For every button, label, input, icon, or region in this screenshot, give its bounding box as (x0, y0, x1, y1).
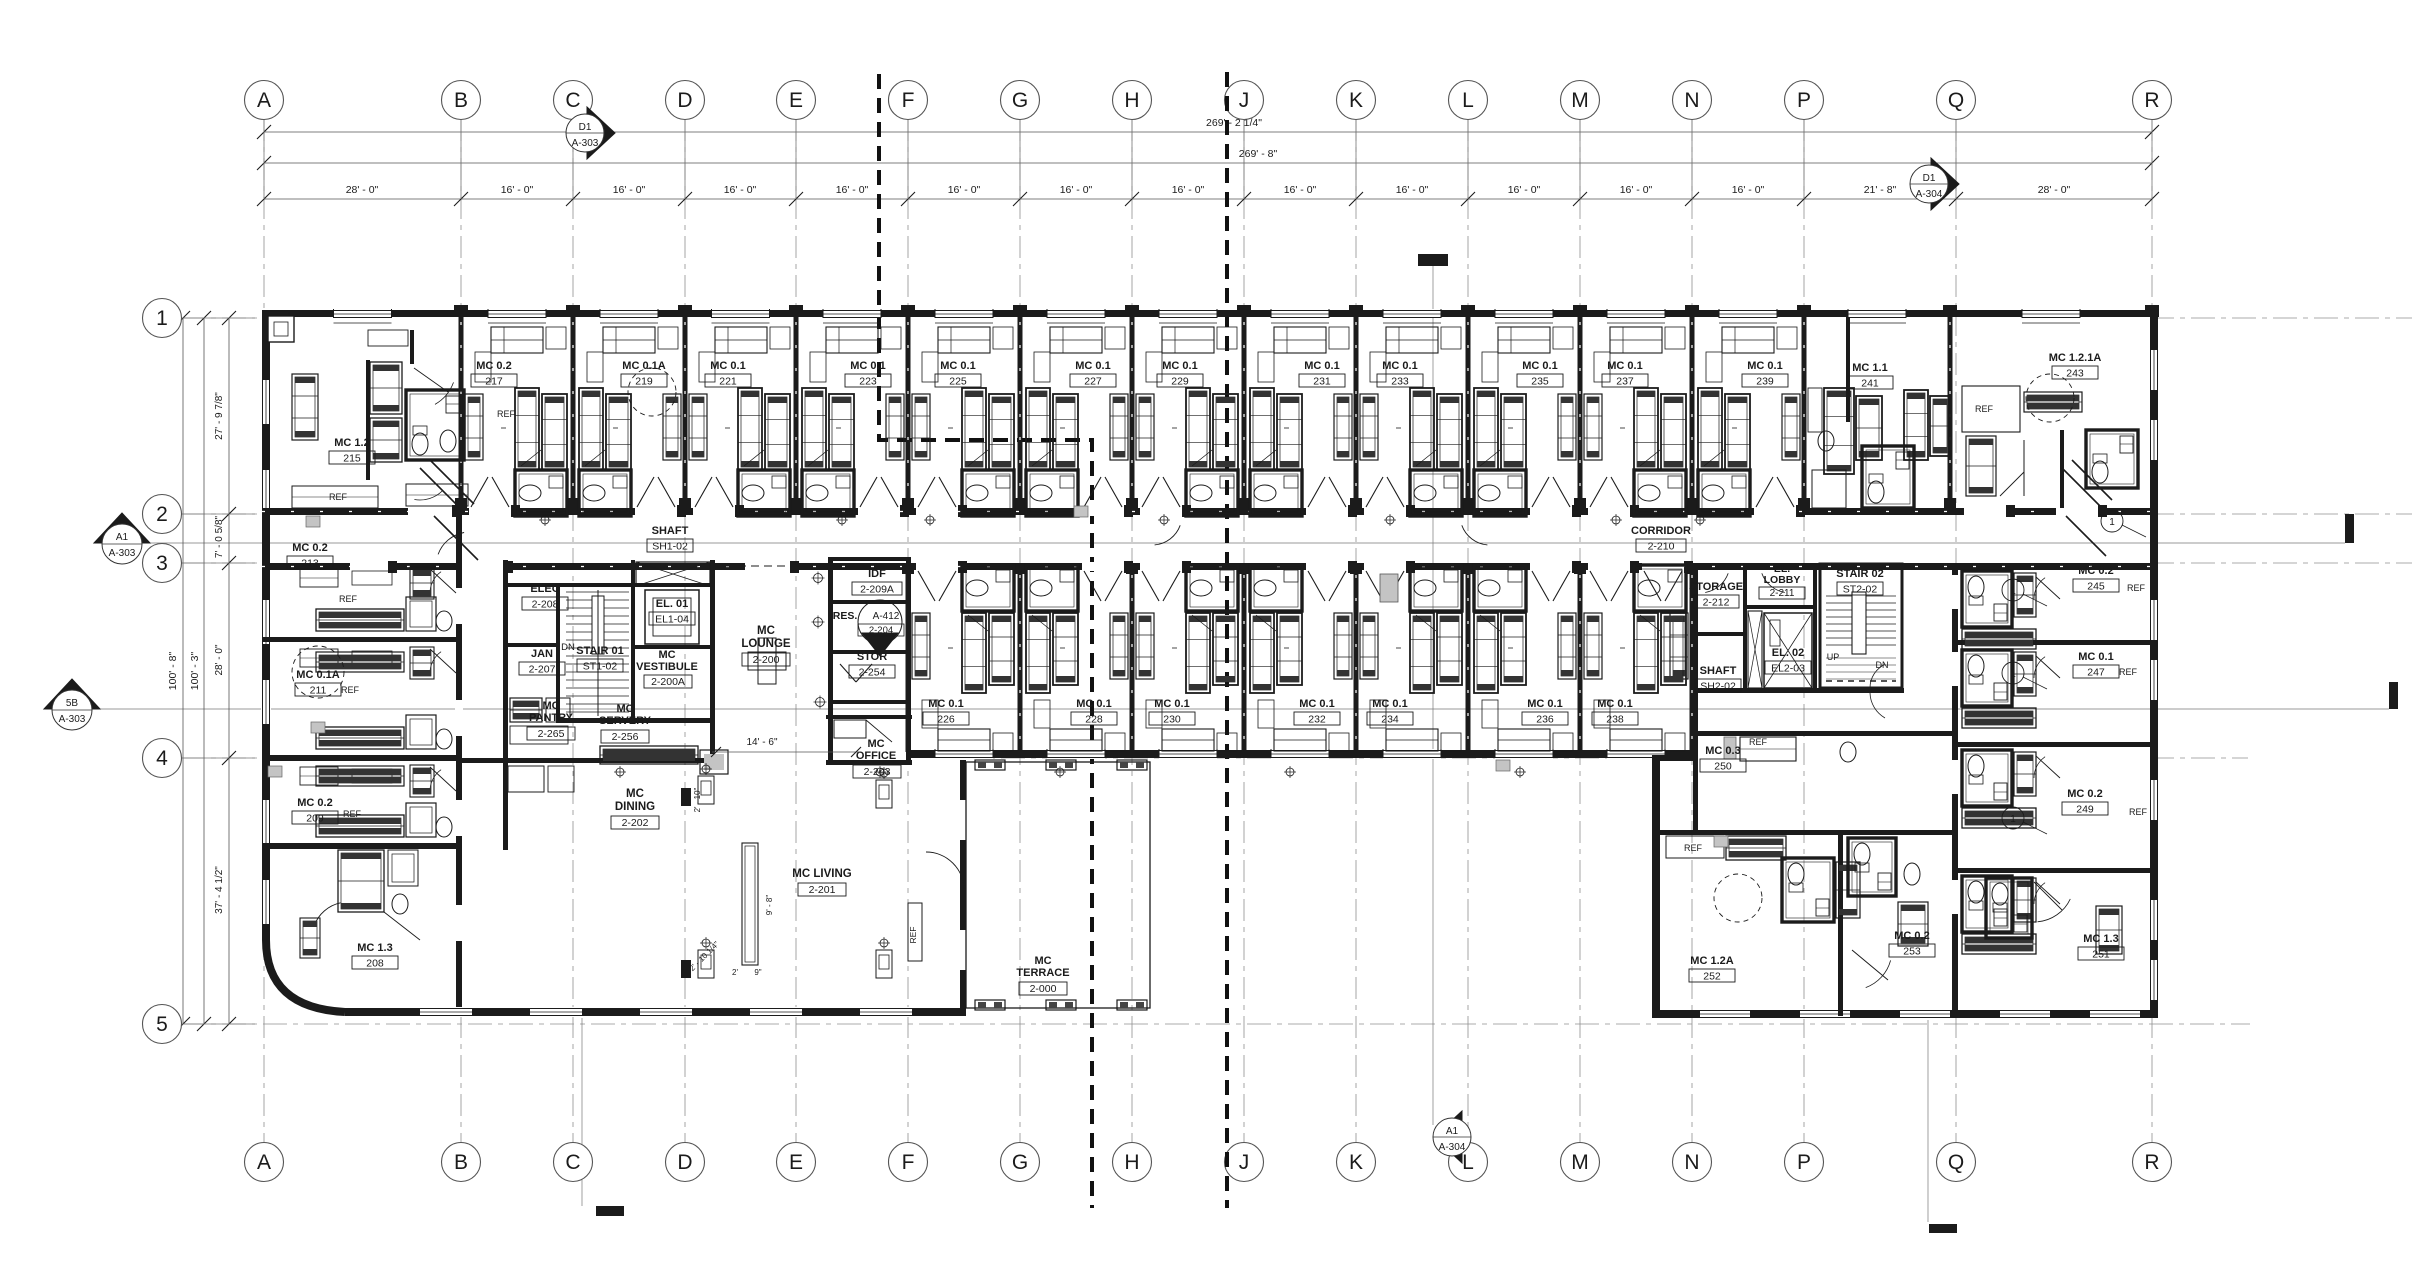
svg-text:E: E (789, 89, 803, 112)
svg-text:2-209A: 2-209A (860, 584, 894, 596)
svg-text:2-203: 2-203 (864, 766, 891, 778)
svg-text:16' - 0": 16' - 0" (724, 184, 757, 196)
svg-text:2-254: 2-254 (859, 667, 886, 679)
svg-text:K: K (1349, 1151, 1363, 1174)
svg-text:REF: REF (908, 927, 918, 944)
svg-text:239: 239 (1756, 376, 1774, 388)
svg-text:EL. 01: EL. 01 (656, 598, 688, 610)
svg-text:RES.: RES. (833, 610, 858, 622)
svg-text:PANTRY: PANTRY (529, 712, 574, 724)
svg-text:A-304: A-304 (1439, 1142, 1466, 1153)
svg-text:EL2-03: EL2-03 (1771, 663, 1805, 675)
svg-text:2-200A: 2-200A (651, 676, 685, 688)
svg-text:IDF: IDF (868, 568, 886, 580)
svg-text:243: 243 (2066, 368, 2084, 380)
svg-text:J: J (1239, 89, 1250, 112)
svg-text:MC: MC (867, 738, 884, 750)
svg-text:D1: D1 (1923, 173, 1936, 184)
svg-text:2-000: 2-000 (1030, 983, 1057, 995)
svg-text:SHAFT: SHAFT (652, 525, 689, 537)
svg-text:TERRACE: TERRACE (1016, 967, 1069, 979)
svg-text:MC 1.2: MC 1.2 (334, 437, 369, 449)
svg-text:D: D (677, 1151, 692, 1174)
svg-text:DN: DN (1876, 660, 1889, 670)
svg-text:MC 0.2: MC 0.2 (1894, 930, 1929, 942)
svg-text:MC 1.2A: MC 1.2A (1690, 955, 1733, 967)
svg-text:LOUNGE: LOUNGE (741, 638, 791, 650)
svg-text:MC 0.1: MC 0.1 (928, 698, 963, 710)
svg-text:MC 0.1: MC 0.1 (1372, 698, 1407, 710)
svg-text:249: 249 (2076, 804, 2094, 816)
svg-text:OFFICE: OFFICE (856, 750, 896, 762)
svg-text:234: 234 (1381, 714, 1399, 726)
svg-text:N: N (1684, 89, 1699, 112)
svg-text:250: 250 (1714, 761, 1732, 773)
svg-text:2-211: 2-211 (1770, 588, 1795, 599)
svg-text:1: 1 (2010, 814, 2016, 825)
svg-text:MC: MC (626, 788, 644, 800)
svg-text:STORAGE: STORAGE (1689, 581, 1743, 593)
svg-text:STAIR 02: STAIR 02 (1836, 568, 1883, 580)
svg-text:217: 217 (485, 376, 503, 388)
svg-text:DINING: DINING (615, 801, 655, 813)
svg-text:STOR: STOR (857, 651, 887, 663)
svg-text:STAIR 01: STAIR 01 (576, 645, 623, 657)
svg-text:227: 227 (1084, 376, 1102, 388)
svg-text:MC 0.2: MC 0.2 (476, 360, 511, 372)
svg-text:2-207: 2-207 (529, 664, 556, 676)
svg-text:2-265: 2-265 (538, 728, 565, 740)
svg-text:2-212: 2-212 (1703, 597, 1730, 609)
svg-text:DN: DN (561, 642, 575, 653)
svg-text:16' - 0": 16' - 0" (1508, 184, 1541, 196)
svg-text:MC 0.1: MC 0.1 (1522, 360, 1557, 372)
svg-text:215: 215 (343, 453, 361, 465)
svg-text:2': 2' (732, 968, 738, 977)
svg-text:MC 0.1: MC 0.1 (1382, 360, 1417, 372)
svg-text:MC 0.1A: MC 0.1A (622, 360, 665, 372)
svg-text:REF: REF (2129, 807, 2148, 817)
svg-text:238: 238 (1606, 714, 1624, 726)
svg-text:B: B (454, 1151, 468, 1174)
svg-text:D1: D1 (579, 122, 592, 133)
svg-text:E: E (789, 1151, 803, 1174)
svg-text:MC 1.3: MC 1.3 (357, 942, 392, 954)
svg-text:A-303: A-303 (59, 714, 86, 725)
svg-text:247: 247 (2087, 667, 2105, 679)
svg-text:14' - 6": 14' - 6" (746, 737, 777, 748)
svg-text:1: 1 (2010, 669, 2016, 680)
svg-text:R: R (2144, 1151, 2159, 1174)
svg-text:MC: MC (1034, 955, 1051, 967)
svg-text:221: 221 (719, 376, 737, 388)
svg-text:H: H (1124, 1151, 1139, 1174)
svg-text:223: 223 (859, 376, 877, 388)
svg-text:REF: REF (341, 685, 360, 695)
svg-text:4: 4 (156, 747, 168, 770)
svg-text:MC 0.1A: MC 0.1A (296, 669, 339, 681)
svg-text:2-201: 2-201 (809, 884, 836, 896)
svg-text:252: 252 (1703, 971, 1721, 983)
svg-text:Q: Q (1948, 89, 1964, 112)
svg-text:269' - 2 1/4": 269' - 2 1/4" (1206, 117, 1262, 129)
svg-text:MC 0.1: MC 0.1 (1597, 698, 1632, 710)
svg-text:F: F (902, 1151, 915, 1174)
svg-text:5B: 5B (66, 698, 79, 709)
svg-text:269' - 8": 269' - 8" (1239, 148, 1278, 160)
svg-text:16' - 0": 16' - 0" (1060, 184, 1093, 196)
svg-text:SERVERY: SERVERY (599, 715, 652, 727)
svg-text:MC 0.1: MC 0.1 (1607, 360, 1642, 372)
svg-text:MC 0.1: MC 0.1 (1527, 698, 1562, 710)
svg-text:MC: MC (757, 625, 775, 637)
svg-text:211: 211 (310, 685, 327, 697)
svg-text:231: 231 (1313, 376, 1331, 388)
svg-text:28' - 0": 28' - 0" (214, 644, 225, 675)
svg-text:REF: REF (1975, 404, 1994, 414)
svg-text:MC: MC (616, 703, 633, 715)
svg-text:2-208: 2-208 (532, 599, 559, 611)
svg-text:251: 251 (2092, 949, 2110, 961)
svg-text:16' - 0": 16' - 0" (1620, 184, 1653, 196)
svg-text:M: M (1571, 1151, 1589, 1174)
svg-text:16' - 0": 16' - 0" (501, 184, 534, 196)
svg-text:253: 253 (1903, 946, 1921, 958)
svg-text:21' - 8": 21' - 8" (1864, 184, 1897, 196)
svg-text:37' - 4 1/2": 37' - 4 1/2" (214, 866, 225, 914)
svg-text:2-256: 2-256 (612, 731, 639, 743)
svg-text:MC 0.1: MC 0.1 (1304, 360, 1339, 372)
svg-text:A1: A1 (116, 532, 129, 543)
svg-text:28' - 0": 28' - 0" (346, 184, 379, 196)
svg-text:3: 3 (156, 552, 168, 575)
svg-text:REF: REF (1749, 737, 1768, 747)
svg-text:A-304: A-304 (1916, 189, 1943, 200)
svg-text:P: P (1797, 89, 1811, 112)
svg-text:A-412: A-412 (873, 611, 900, 622)
svg-text:5: 5 (156, 1013, 168, 1036)
svg-text:100' - 3": 100' - 3" (189, 652, 201, 691)
svg-text:229: 229 (1171, 376, 1189, 388)
svg-text:REF: REF (2127, 583, 2146, 593)
svg-text:16' - 0": 16' - 0" (613, 184, 646, 196)
svg-text:16' - 0": 16' - 0" (948, 184, 981, 196)
svg-text:MC 0.1: MC 0.1 (1076, 698, 1111, 710)
svg-text:MC 0.1: MC 0.1 (1299, 698, 1334, 710)
svg-text:16' - 0": 16' - 0" (1732, 184, 1765, 196)
svg-text:9' - 8": 9' - 8" (765, 895, 774, 916)
svg-text:2-200: 2-200 (753, 654, 780, 666)
svg-text:MC 1.1: MC 1.1 (1852, 362, 1887, 374)
svg-text:B: B (454, 89, 468, 112)
svg-text:MC 0.1: MC 0.1 (1747, 360, 1782, 372)
svg-text:A-303: A-303 (109, 548, 136, 559)
svg-text:REF: REF (1684, 843, 1703, 853)
svg-text:MC: MC (658, 649, 675, 661)
svg-text:CORRIDOR: CORRIDOR (1631, 525, 1691, 537)
svg-text:2-202: 2-202 (622, 817, 649, 829)
svg-text:27' - 9 7/8": 27' - 9 7/8" (214, 392, 225, 440)
svg-text:C: C (565, 1151, 580, 1174)
svg-text:LOBBY: LOBBY (1764, 574, 1801, 586)
svg-text:MC 1.3: MC 1.3 (2083, 933, 2118, 945)
svg-text:100' - 8": 100' - 8" (167, 652, 179, 691)
svg-text:N: N (1684, 1151, 1699, 1174)
svg-text:D: D (677, 89, 692, 112)
svg-text:REF: REF (329, 492, 348, 502)
svg-text:C: C (565, 89, 580, 112)
svg-text:G: G (1012, 89, 1028, 112)
svg-text:245: 245 (2087, 581, 2105, 593)
svg-text:P: P (1797, 1151, 1811, 1174)
svg-text:JAN: JAN (531, 648, 553, 660)
svg-text:MC 0.1: MC 0.1 (1075, 360, 1110, 372)
svg-text:ST2-02: ST2-02 (1843, 584, 1878, 596)
svg-text:R: R (2144, 89, 2159, 112)
svg-text:1: 1 (2010, 586, 2016, 597)
svg-text:219: 219 (635, 376, 653, 388)
svg-text:209: 209 (306, 813, 324, 825)
svg-text:Q: Q (1948, 1151, 1964, 1174)
svg-text:MC 0.2: MC 0.2 (2067, 788, 2102, 800)
svg-text:MC 0.2: MC 0.2 (297, 797, 332, 809)
svg-text:SH1-02: SH1-02 (652, 541, 688, 553)
svg-text:UP: UP (1827, 652, 1840, 662)
svg-text:MC 1.2.1A: MC 1.2.1A (2049, 352, 2102, 364)
svg-text:MC: MC (542, 700, 559, 712)
svg-text:MC 0.2: MC 0.2 (292, 542, 327, 554)
svg-text:213: 213 (301, 558, 319, 570)
svg-text:MC 0.1: MC 0.1 (1162, 360, 1197, 372)
svg-text:MC 0.1: MC 0.1 (1154, 698, 1189, 710)
svg-text:J: J (1239, 1151, 1250, 1174)
svg-text:1: 1 (2109, 517, 2115, 528)
svg-text:M: M (1571, 89, 1589, 112)
svg-text:MC LIVING: MC LIVING (792, 868, 851, 880)
svg-text:225: 225 (949, 376, 967, 388)
svg-text:235: 235 (1531, 376, 1549, 388)
svg-text:MC 0.1: MC 0.1 (710, 360, 745, 372)
svg-text:16' - 0": 16' - 0" (836, 184, 869, 196)
svg-text:16' - 0": 16' - 0" (1396, 184, 1429, 196)
svg-text:A: A (257, 89, 271, 112)
svg-text:MC 0.1: MC 0.1 (2078, 651, 2113, 663)
svg-text:L: L (1462, 89, 1474, 112)
svg-text:241: 241 (1861, 378, 1879, 390)
svg-text:2-204: 2-204 (869, 625, 893, 636)
svg-text:28' - 0": 28' - 0" (2038, 184, 2071, 196)
svg-text:L: L (1462, 1151, 1474, 1174)
svg-text:228: 228 (1085, 714, 1103, 726)
svg-text:SHAFT: SHAFT (1700, 665, 1737, 677)
svg-text:REF: REF (2119, 667, 2138, 677)
svg-text:A1: A1 (1446, 1126, 1459, 1137)
svg-text:VESTIBULE: VESTIBULE (636, 661, 698, 673)
svg-text:236: 236 (1536, 714, 1554, 726)
svg-text:232: 232 (1308, 714, 1326, 726)
svg-text:16' - 0": 16' - 0" (1172, 184, 1205, 196)
svg-text:233: 233 (1391, 376, 1409, 388)
svg-text:ELEC: ELEC (530, 583, 559, 595)
svg-text:230: 230 (1163, 714, 1181, 726)
svg-text:A-303: A-303 (572, 138, 599, 149)
svg-text:H: H (1124, 89, 1139, 112)
svg-text:ST1-02: ST1-02 (583, 661, 618, 673)
svg-text:MC 0.2: MC 0.2 (2078, 565, 2113, 577)
svg-text:REF: REF (497, 409, 516, 419)
svg-text:9": 9" (754, 968, 761, 977)
svg-text:2-210: 2-210 (1648, 541, 1675, 553)
svg-text:F: F (902, 89, 915, 112)
svg-text:1: 1 (156, 307, 168, 330)
svg-text:A: A (257, 1151, 271, 1174)
svg-text:G: G (1012, 1151, 1028, 1174)
svg-text:EL. 02: EL. 02 (1772, 647, 1804, 659)
svg-text:208: 208 (366, 958, 384, 970)
svg-text:SH2-02: SH2-02 (1700, 681, 1736, 693)
svg-text:MC 0.1: MC 0.1 (850, 360, 885, 372)
svg-text:237: 237 (1616, 376, 1634, 388)
svg-text:K: K (1349, 89, 1363, 112)
svg-text:16' - 0": 16' - 0" (1284, 184, 1317, 196)
svg-text:MC 0.3: MC 0.3 (1705, 745, 1740, 757)
svg-text:2' - 10": 2' - 10" (693, 787, 702, 812)
svg-text:MC 0.1: MC 0.1 (940, 360, 975, 372)
svg-text:EL1-04: EL1-04 (655, 614, 689, 626)
svg-text:7' - 0 5/8": 7' - 0 5/8" (214, 515, 225, 558)
svg-text:REF: REF (339, 594, 358, 604)
svg-text:226: 226 (937, 714, 955, 726)
svg-text:2: 2 (156, 503, 168, 526)
svg-text:REF: REF (343, 809, 362, 819)
